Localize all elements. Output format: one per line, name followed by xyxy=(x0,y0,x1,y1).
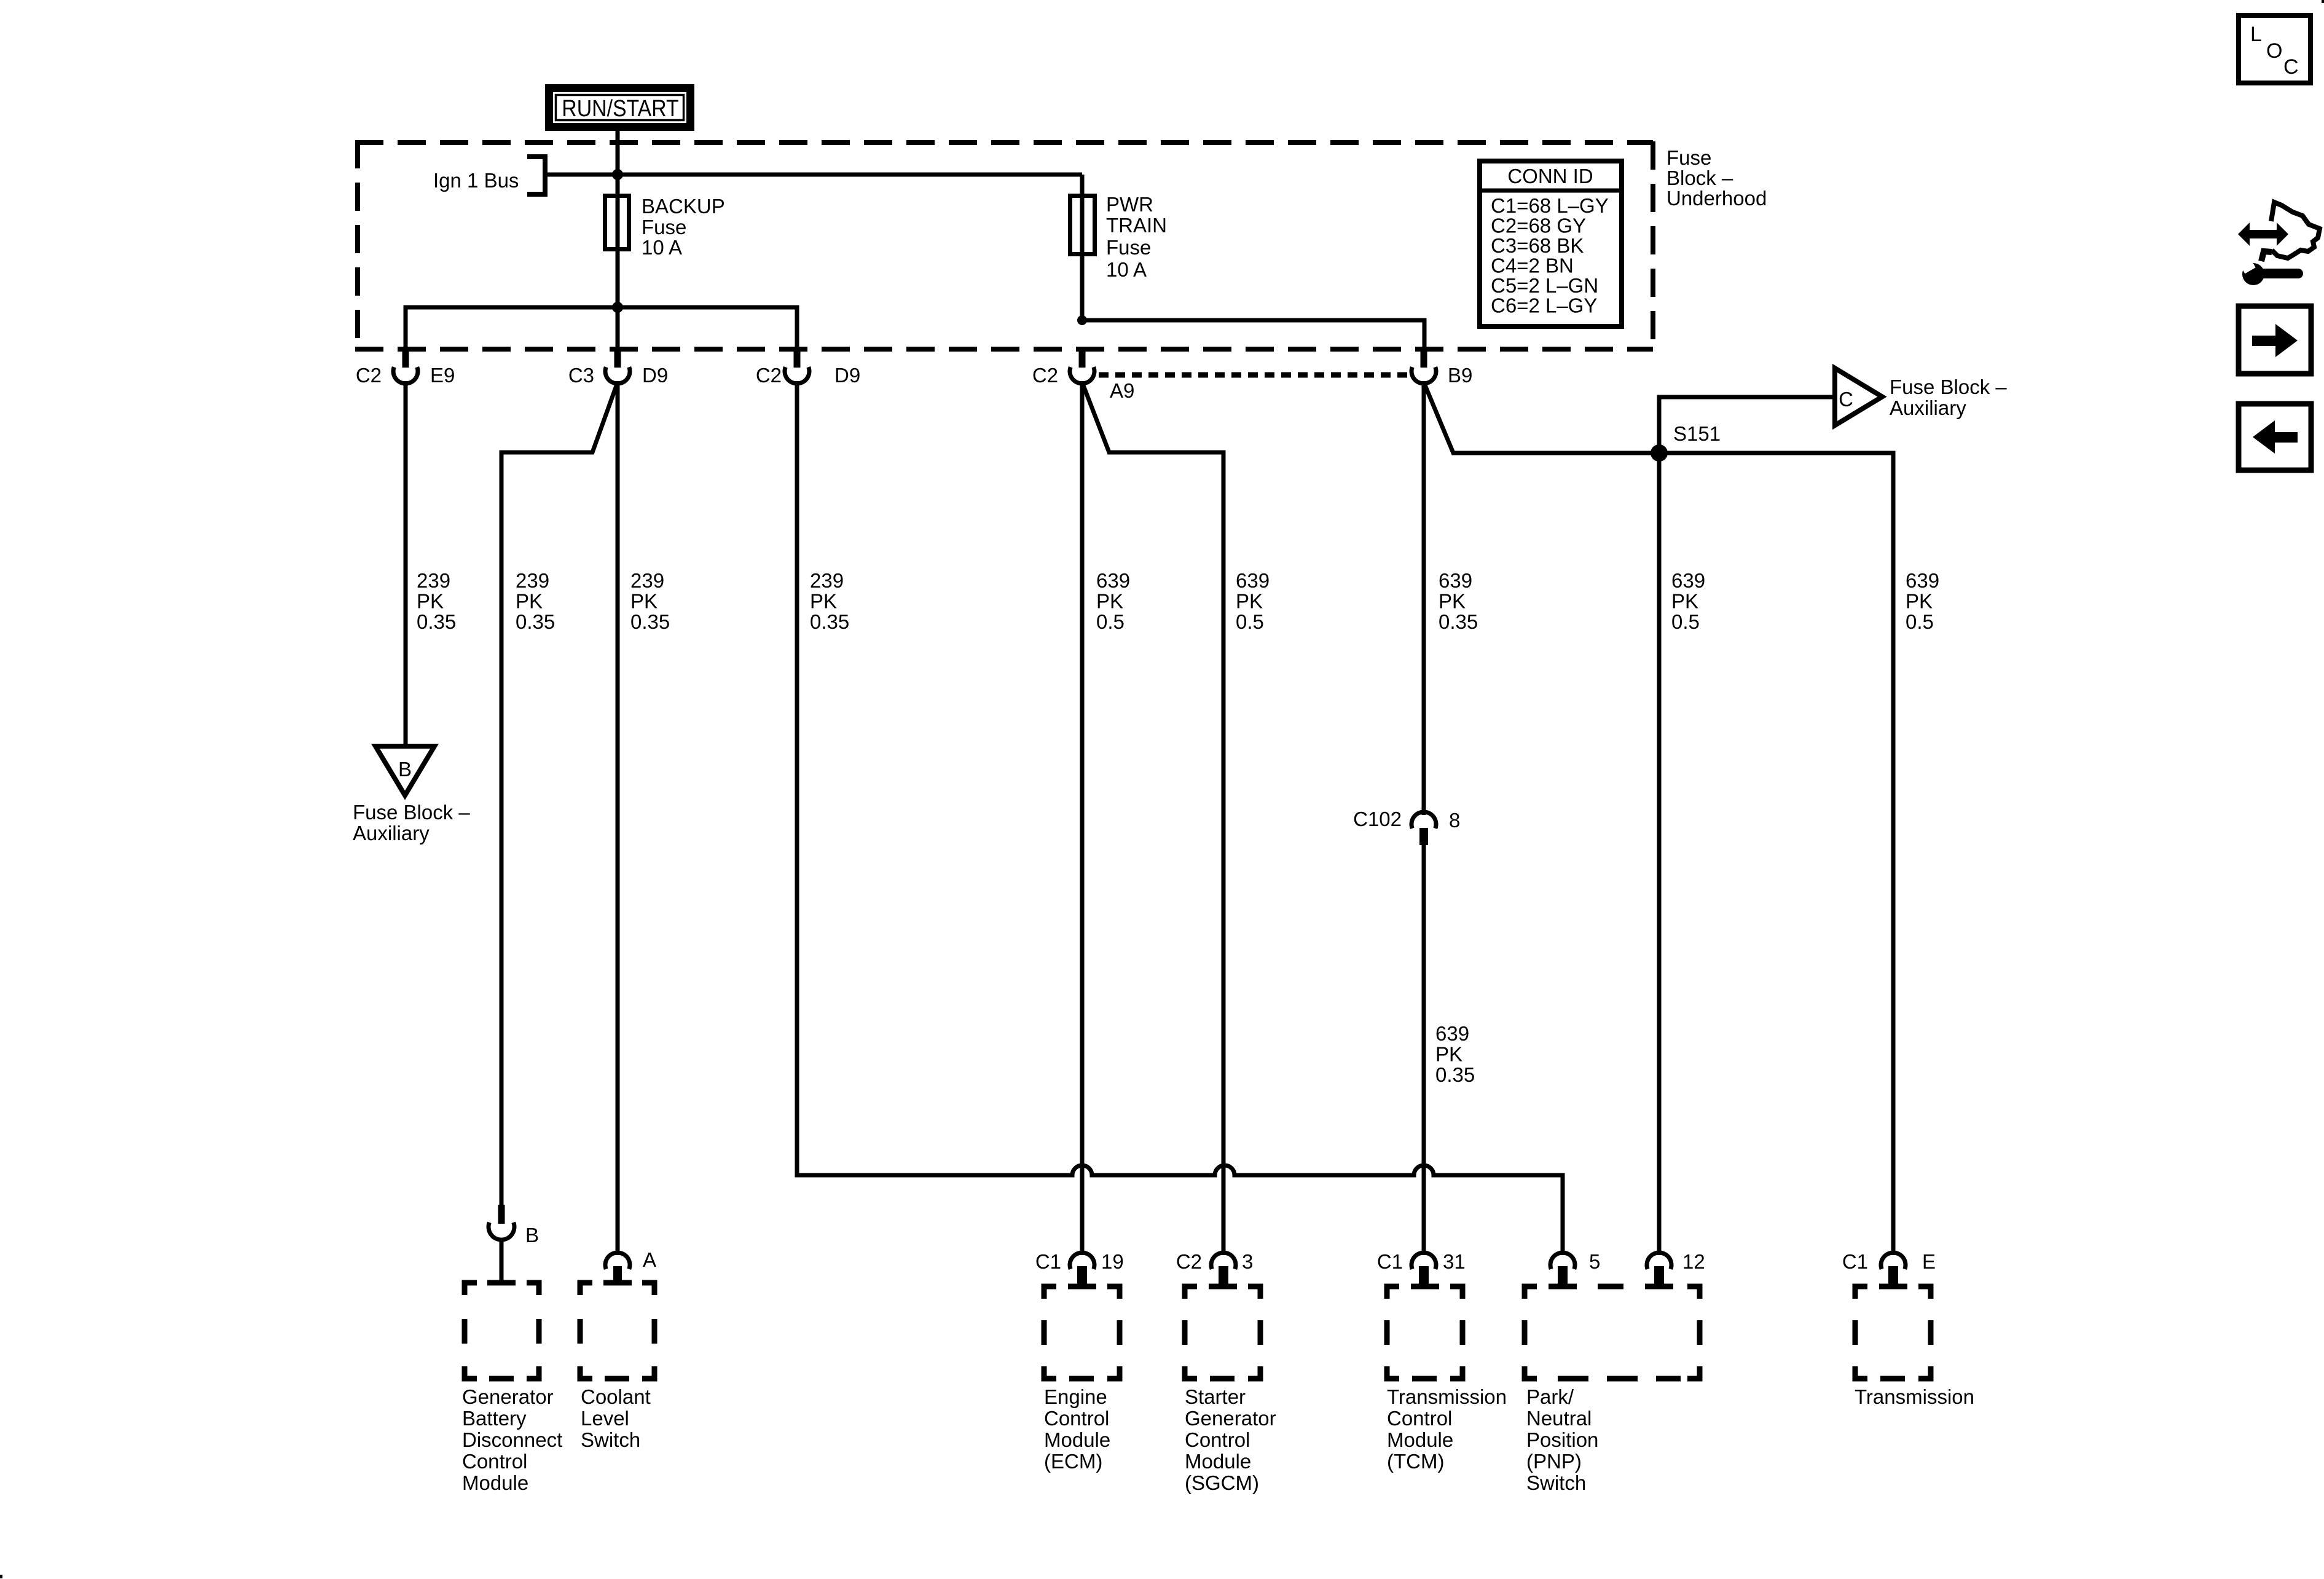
svg-text:0.5: 0.5 xyxy=(1096,610,1125,633)
splice S151 xyxy=(1651,444,1668,462)
svg-text:31: 31 xyxy=(1443,1250,1466,1273)
svg-text:0.5: 0.5 xyxy=(1236,610,1264,633)
svg-text:PK: PK xyxy=(516,590,543,613)
svg-text:C2: C2 xyxy=(1032,364,1058,387)
svg-text:0.35: 0.35 xyxy=(1435,1063,1475,1086)
svg-text:Control: Control xyxy=(462,1450,527,1473)
svg-text:0.35: 0.35 xyxy=(516,610,555,633)
svg-text:Fuse: Fuse xyxy=(1666,146,1711,169)
wire Ign 1 Bus horizontal xyxy=(548,173,1082,177)
svg-text:C1=68 L–GY: C1=68 L–GY xyxy=(1491,194,1609,217)
svg-text:Generator: Generator xyxy=(462,1385,554,1408)
svg-text:12: 12 xyxy=(1682,1250,1705,1273)
svg-text:PK: PK xyxy=(1906,590,1933,613)
wire C3 D9 straight down to coolant switch xyxy=(616,381,620,1255)
wire C2 D9 down to bus and across with hops to PNP pin 5 xyxy=(797,381,1563,1255)
svg-text:PK: PK xyxy=(1439,590,1466,613)
wire E9 to triangle B xyxy=(404,381,408,747)
svg-text:PWR: PWR xyxy=(1106,193,1153,216)
box coolant level switch xyxy=(580,1283,654,1379)
svg-text:C2: C2 xyxy=(756,364,782,387)
svg-text:639: 639 xyxy=(1439,569,1472,592)
svg-text:Fuse Block –: Fuse Block – xyxy=(353,801,470,824)
wire RUN/START to Ign bus junction xyxy=(616,127,620,176)
svg-text:Fuse: Fuse xyxy=(1106,236,1151,259)
connector C102 pin 8 xyxy=(1353,808,1460,845)
triangle C to Fuse Block Auxiliary xyxy=(1835,368,1882,425)
svg-text:PK: PK xyxy=(630,590,658,613)
svg-text:C102: C102 xyxy=(1353,808,1402,830)
wire label 639 PK 0.35 (B9) xyxy=(1439,569,1478,633)
svg-text:5: 5 xyxy=(1589,1250,1600,1273)
wire labels xyxy=(417,569,1939,1086)
connector A (coolant level switch) xyxy=(605,1248,656,1283)
svg-text:Switch: Switch xyxy=(581,1428,640,1451)
svg-text:E: E xyxy=(1922,1250,1936,1273)
node Ign 1 Bus bracket xyxy=(527,157,545,194)
svg-text:PK: PK xyxy=(1096,590,1123,613)
wire PWR TRAIN fuse down to B9 feed xyxy=(1082,175,1424,352)
wire label 639 PK 0.5 (pin 12) xyxy=(1671,569,1705,633)
svg-text:3: 3 xyxy=(1242,1250,1253,1273)
connector B9 xyxy=(1411,348,1472,387)
svg-text:(PNP): (PNP) xyxy=(1526,1450,1582,1473)
svg-text:639: 639 xyxy=(1236,569,1270,592)
svg-text:C: C xyxy=(1839,388,1853,411)
svg-text:639: 639 xyxy=(1671,569,1705,592)
wire label 639 PK 0.35 (below C102) xyxy=(1435,1022,1475,1086)
conn id table xyxy=(1480,161,1622,326)
svg-text:C1: C1 xyxy=(1377,1250,1403,1273)
label coolant level switch xyxy=(581,1385,651,1451)
junction dot BACKUP distribution xyxy=(612,302,623,313)
svg-text:C5=2 L–GN: C5=2 L–GN xyxy=(1491,274,1598,297)
wire through BACKUP fuse xyxy=(616,175,620,307)
svg-text:639: 639 xyxy=(1435,1022,1469,1045)
wire fuse to distribution xyxy=(616,307,620,352)
svg-text:Transmission: Transmission xyxy=(1387,1385,1507,1408)
dotted line A9 to B9 xyxy=(1099,372,1408,378)
icon right arrow box xyxy=(2239,306,2311,374)
triangle B to Fuse Block Auxiliary xyxy=(375,746,434,795)
svg-text:PK: PK xyxy=(810,590,837,613)
svg-text:Module: Module xyxy=(1185,1450,1251,1473)
wire label 639 PK 0.5 (SGCM) xyxy=(1236,569,1270,633)
svg-text:239: 239 xyxy=(630,569,664,592)
connector C3 D9 xyxy=(568,348,668,387)
wire label 639 PK 0.5 (ECM) xyxy=(1096,569,1130,633)
svg-text:PK: PK xyxy=(1435,1043,1462,1066)
svg-text:S151: S151 xyxy=(1673,422,1721,445)
component labels xyxy=(462,1385,1974,1494)
svg-text:Module: Module xyxy=(1387,1428,1453,1451)
svg-text:C3=68 BK: C3=68 BK xyxy=(1491,234,1584,257)
junction dot at BACKUP tap xyxy=(612,169,623,180)
switch RUN/START xyxy=(549,89,691,127)
svg-text:CONN ID: CONN ID xyxy=(1507,165,1593,187)
connector C1 19 (ECM) xyxy=(1035,1250,1124,1286)
svg-text:0.35: 0.35 xyxy=(1439,610,1478,633)
corner mark bottom left xyxy=(0,1575,2,1578)
wire S151 up to triangle C xyxy=(1659,397,1836,453)
svg-text:B: B xyxy=(398,758,412,781)
box generator battery disconnect control module xyxy=(465,1283,539,1379)
svg-text:Transmission: Transmission xyxy=(1855,1385,1974,1408)
connector C2 D9 xyxy=(756,348,860,387)
svg-text:A9: A9 xyxy=(1110,379,1134,402)
svg-text:C1: C1 xyxy=(1842,1250,1868,1273)
box transmission xyxy=(1855,1286,1931,1379)
svg-text:639: 639 xyxy=(1096,569,1130,592)
icon wrench and panel xyxy=(2238,202,2320,285)
connector C2 E9 xyxy=(356,348,455,387)
svg-text:239: 239 xyxy=(516,569,549,592)
wire C102 down to TCM xyxy=(1422,844,1426,1255)
corner mark top right xyxy=(2322,0,2324,3)
connector 12 (PNP) xyxy=(1647,1250,1705,1286)
fuse block underhood dashed box xyxy=(355,140,1653,349)
svg-text:239: 239 xyxy=(810,569,844,592)
connector B (generator module) xyxy=(489,1205,539,1283)
connector C2 A9 xyxy=(1032,348,1135,402)
label transmission xyxy=(1855,1385,1974,1408)
box transmission control module xyxy=(1387,1286,1462,1379)
fuse BACKUP 10A xyxy=(605,196,629,250)
svg-text:PK: PK xyxy=(417,590,444,613)
box park neutral position switch xyxy=(1525,1286,1700,1379)
wire label 639 PK 0.5 (transmission) xyxy=(1906,569,1939,633)
svg-text:Module: Module xyxy=(1044,1428,1110,1451)
wire A9 straight down to ECM xyxy=(1080,381,1085,1255)
svg-text:C2: C2 xyxy=(356,364,382,387)
svg-text:Neutral: Neutral xyxy=(1526,1407,1592,1430)
svg-text:BACKUP: BACKUP xyxy=(642,195,725,218)
svg-text:Fuse: Fuse xyxy=(642,216,686,238)
svg-text:C6=2 L–GY: C6=2 L–GY xyxy=(1491,294,1597,317)
svg-text:Ign 1 Bus: Ign 1 Bus xyxy=(433,169,519,192)
svg-text:Switch: Switch xyxy=(1526,1471,1586,1494)
svg-text:8: 8 xyxy=(1449,809,1460,832)
svg-text:Position: Position xyxy=(1526,1428,1598,1451)
svg-text:Fuse Block –: Fuse Block – xyxy=(1890,376,2007,398)
svg-text:C: C xyxy=(2283,55,2299,79)
connector C1 E (transmission) xyxy=(1842,1250,1936,1286)
box starter generator control module xyxy=(1185,1286,1260,1379)
svg-text:C1: C1 xyxy=(1035,1250,1061,1273)
wire label 239 PK 0.35 (generator) xyxy=(516,569,555,633)
svg-text:Disconnect: Disconnect xyxy=(462,1428,562,1451)
svg-text:239: 239 xyxy=(417,569,450,592)
wire label 239 PK 0.35 (bus) xyxy=(810,569,849,633)
wire label 239 PK 0.35 (E9) xyxy=(417,569,456,633)
svg-text:Generator: Generator xyxy=(1185,1407,1276,1430)
svg-text:PK: PK xyxy=(1671,590,1698,613)
icon LOC box xyxy=(2239,15,2310,83)
svg-text:639: 639 xyxy=(1906,569,1939,592)
svg-text:0.35: 0.35 xyxy=(417,610,456,633)
svg-text:Level: Level xyxy=(581,1407,629,1430)
svg-text:0.35: 0.35 xyxy=(810,610,849,633)
wire BACKUP distribution bus xyxy=(406,307,797,352)
wire C3 D9 diagonal to generator module drop xyxy=(501,382,618,1205)
svg-text:PK: PK xyxy=(1236,590,1263,613)
label generator battery disconnect control module xyxy=(462,1385,562,1494)
svg-text:L: L xyxy=(2250,23,2262,46)
svg-text:(SGCM): (SGCM) xyxy=(1185,1471,1259,1494)
label engine control module xyxy=(1044,1385,1110,1473)
svg-text:10 A: 10 A xyxy=(1106,258,1147,281)
svg-text:O: O xyxy=(2266,39,2282,63)
svg-text:0.5: 0.5 xyxy=(1906,610,1934,633)
label park neutral position switch xyxy=(1526,1385,1598,1494)
svg-text:C2=68 GY: C2=68 GY xyxy=(1491,215,1586,237)
connector C1 31 (TCM) xyxy=(1377,1250,1466,1286)
svg-text:Battery: Battery xyxy=(462,1407,527,1430)
svg-text:B: B xyxy=(525,1224,539,1246)
svg-text:(TCM): (TCM) xyxy=(1387,1450,1444,1473)
fuse PWR TRAIN 10A xyxy=(1070,196,1095,254)
svg-text:Engine: Engine xyxy=(1044,1385,1107,1408)
wire label 239 PK 0.35 (coolant) xyxy=(630,569,670,633)
svg-text:Coolant: Coolant xyxy=(581,1385,651,1408)
svg-text:Auxiliary: Auxiliary xyxy=(353,822,430,845)
svg-text:D9: D9 xyxy=(642,364,668,387)
svg-text:0.35: 0.35 xyxy=(630,610,670,633)
label starter generator control module xyxy=(1185,1385,1276,1494)
label transmission control module xyxy=(1387,1385,1507,1473)
svg-text:Control: Control xyxy=(1387,1407,1452,1430)
svg-text:C3: C3 xyxy=(568,364,594,387)
svg-text:TRAIN: TRAIN xyxy=(1106,214,1167,237)
svg-text:E9: E9 xyxy=(430,364,455,387)
label Fuse Block Underhood xyxy=(1666,146,1767,210)
svg-text:Park/: Park/ xyxy=(1526,1385,1574,1408)
svg-text:C2: C2 xyxy=(1176,1250,1202,1273)
svg-text:B9: B9 xyxy=(1448,364,1472,387)
svg-text:0.5: 0.5 xyxy=(1671,610,1700,633)
svg-text:Block –: Block – xyxy=(1666,167,1733,189)
svg-text:D9: D9 xyxy=(834,364,860,387)
svg-text:Underhood: Underhood xyxy=(1666,187,1767,210)
wire B9 diagonal to S151 and on to transmission xyxy=(1424,382,1893,1255)
icon left arrow box xyxy=(2239,404,2311,470)
svg-text:C4=2 BN: C4=2 BN xyxy=(1491,254,1574,277)
svg-text:Starter: Starter xyxy=(1185,1385,1246,1408)
svg-text:Control: Control xyxy=(1044,1407,1109,1430)
wire A9 diagonal branch to SGCM xyxy=(1082,382,1223,1255)
svg-text:Module: Module xyxy=(462,1471,528,1494)
svg-text:19: 19 xyxy=(1101,1250,1124,1273)
svg-text:(ECM): (ECM) xyxy=(1044,1450,1102,1473)
wire S151 down to PNP pin 12 xyxy=(1657,453,1662,1255)
junction dot PWR feed xyxy=(1077,315,1087,325)
svg-text:A: A xyxy=(643,1248,656,1271)
svg-text:10 A: 10 A xyxy=(642,236,682,259)
connector C2 3 (SGCM) xyxy=(1176,1250,1254,1286)
svg-text:Control: Control xyxy=(1185,1428,1250,1451)
wire B9 straight down to C102 xyxy=(1422,381,1426,815)
svg-text:Auxiliary: Auxiliary xyxy=(1890,396,1966,419)
connector 5 (PNP) xyxy=(1550,1250,1600,1286)
box engine control module xyxy=(1044,1286,1120,1379)
svg-text:RUN/START: RUN/START xyxy=(562,95,678,121)
